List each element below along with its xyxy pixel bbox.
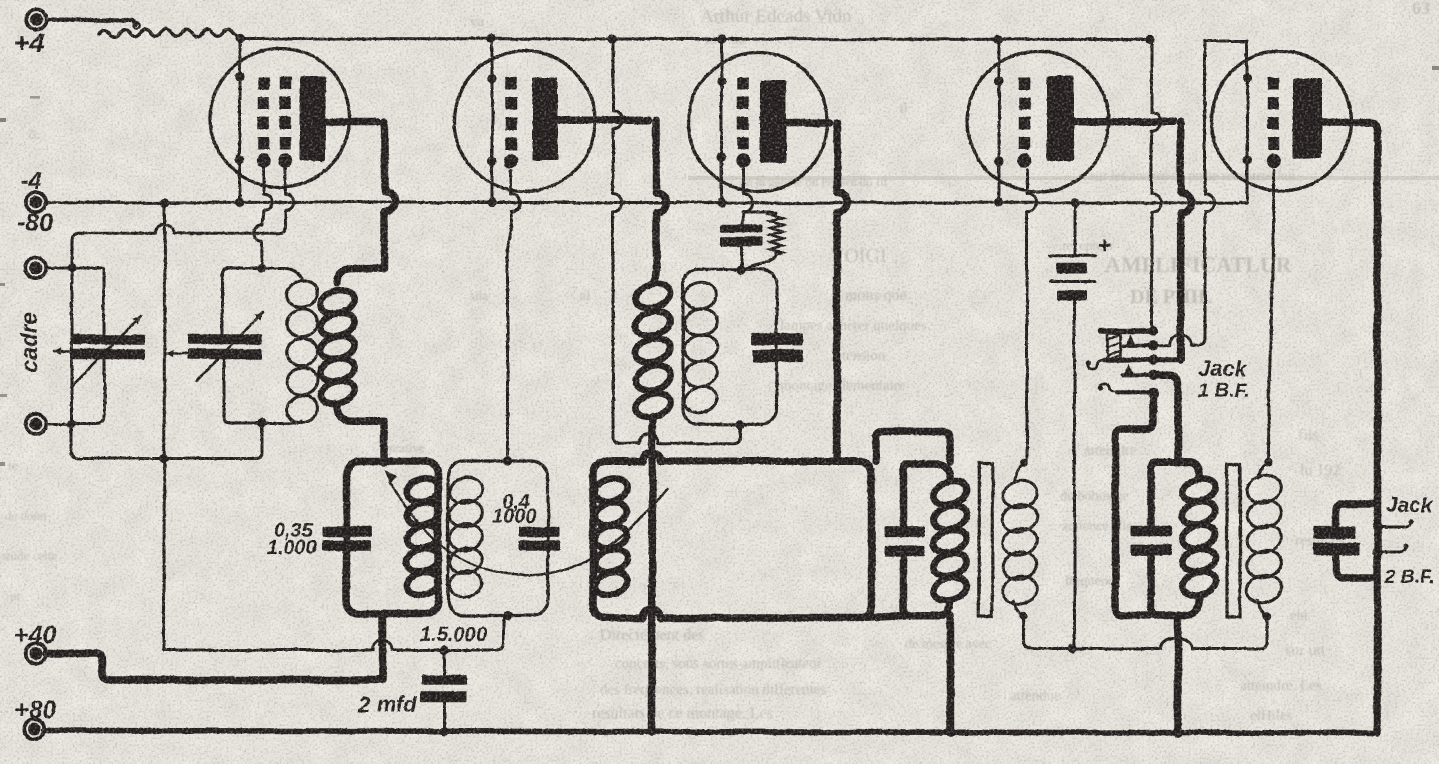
transformer TR1 core: [979, 464, 993, 616]
transformer TR2 primary frame: [1151, 462, 1199, 616]
wire cadre top link: [46, 267, 104, 270]
inductor L7 T4 coil: [681, 279, 719, 312]
junction -4 bus tube4 fil: [994, 198, 1003, 207]
terminal +4: [26, 9, 46, 29]
capacitor C5 lead bottom: [443, 702, 446, 732]
terminal cadre bottom: [26, 414, 46, 434]
transformer TR1 primary frame: [904, 464, 951, 615]
junction +80 tube2 plate feed: [647, 727, 656, 736]
inductor TR1 secondary coil: [1014, 463, 1024, 482]
wire -4 bus: [46, 201, 1247, 205]
junction -4 bus tube2 fil: [487, 198, 496, 207]
tube V3 filament bottom junction: [717, 152, 726, 161]
capacitor C5 top plate: [422, 675, 468, 685]
wire L2 to tank1: [381, 421, 389, 463]
jack J2 coupling capacitor: [1336, 504, 1378, 526]
variable capacitor C1 bottom lead: [72, 360, 105, 424]
junction top bus tube1: [235, 34, 244, 43]
wire L5 through tank3 to +80: [648, 428, 656, 732]
tube V2 filament top junction: [487, 74, 496, 83]
wire TR1 primary to +80: [947, 615, 955, 732]
variable capacitor C2 trimmer arrow: [166, 352, 190, 355]
jack J1 frame bar: [1101, 328, 1150, 334]
tube V5 filament top junction: [1242, 74, 1251, 83]
wire bias return: [1024, 616, 1161, 649]
grid capacitor C6 bottom plate: [721, 237, 763, 247]
tube V2 filament wire: [491, 39, 494, 203]
jack J1 contact 4 arm: [1122, 373, 1149, 377]
inductor L2 plate coil: [337, 269, 385, 283]
wire cadre to lower bus: [72, 423, 263, 459]
tube V2 grid wire: [511, 170, 520, 222]
tube V3 envelope and electrodes: [689, 53, 828, 192]
tuned circuit T3 frame: [593, 461, 872, 618]
junction TR2 secondary bottom: [1263, 612, 1271, 620]
junction cadre top: [67, 263, 76, 272]
junction -4 bus battery: [1070, 198, 1079, 207]
tube V4 filament bottom junction: [994, 156, 1003, 165]
tube V2 filament bottom junction: [487, 156, 496, 165]
capacitor C4 bottom plate: [519, 540, 560, 551]
tube V2 plate wire: [557, 117, 649, 125]
transformer TR2 core: [1227, 465, 1240, 617]
jack J2 contact ring: [1373, 547, 1383, 557]
junction T2 bottom: [503, 611, 512, 620]
junction top bus tube3: [717, 34, 726, 43]
capacitor C3 bottom plate: [322, 540, 371, 551]
junction TR2 secondary top: [1264, 458, 1272, 466]
tube V1 plate wire vertical: [385, 122, 395, 269]
tube V3 plate wire: [785, 119, 830, 127]
jack J1 contact 2 arrow: [1126, 334, 1136, 346]
wire top bus to jack frame: [1152, 40, 1161, 331]
wire tank1 to +40 riser: [379, 614, 387, 680]
junction top bus corner: [1145, 35, 1154, 44]
battery B1 lead bottom: [1073, 300, 1076, 649]
junction T2 top: [503, 456, 512, 465]
junction -4 bus tube3 fil: [717, 198, 726, 207]
wire T3 to TR1 bottom link: [866, 615, 906, 617]
capacitor C5 lead top: [443, 650, 446, 675]
terminal +40: [26, 643, 46, 663]
junction lower bus ground vertical: [159, 454, 168, 463]
capacitor C3 top plate: [322, 526, 372, 537]
margin marks: [0, 118, 6, 122]
terminal +80: [24, 719, 44, 739]
variable capacitor C2 top lead: [222, 268, 260, 334]
terminal cadre top: [26, 258, 46, 278]
wire T3 to transformer1 primary: [876, 431, 950, 462]
wire fil feed x613: [613, 39, 622, 436]
junction top bus tube4: [994, 35, 1003, 44]
wire lower return y650: [164, 649, 373, 652]
junction grid coil top node: [257, 263, 266, 272]
battery B1 lead top: [1073, 203, 1076, 256]
grid resistor R2: [770, 212, 782, 255]
junction T4 bottom: [736, 420, 745, 429]
jack J1 contact 5 spring: [1099, 384, 1115, 392]
jack J1 contact 2 arm: [1124, 343, 1150, 347]
tube V1 outer grid wire: [278, 167, 294, 233]
tuned circuit T4 frame: [683, 269, 777, 424]
scan band artifact: [688, 176, 1439, 180]
inductor TR1 primary coil: [931, 478, 970, 509]
capacitor C8 top plate: [884, 527, 925, 538]
wire TR2 primary to +80: [1174, 616, 1182, 733]
tube V1 filament wire: [238, 39, 241, 203]
battery B1 cell1 long plate: [1051, 255, 1096, 258]
variable capacitor C1 top plate: [72, 334, 146, 344]
capacitor C9 bottom plate: [1131, 545, 1173, 556]
wire +40 feed: [46, 653, 383, 680]
tube V5 grid wire: [1269, 170, 1274, 462]
variable capacitor C1 trimmer arrow: [54, 350, 88, 353]
capacitor C7 top plate: [752, 333, 804, 345]
tube V5 filament wire: [1246, 41, 1249, 203]
junction top bus tube2: [487, 34, 496, 43]
wire cadre vertical link: [70, 268, 73, 424]
variable capacitor C1 top lead: [103, 268, 106, 334]
inductor L6 T3 coil: [592, 475, 630, 505]
wire ground vertical: [163, 202, 167, 650]
inductor TR2 secondary coil: [1258, 462, 1269, 478]
junction +80 transformer1: [946, 728, 955, 737]
junction -4 bus ground vertical: [160, 198, 169, 207]
jack J1 contact 5 arm: [1116, 391, 1149, 395]
grid resistor R2 top lead: [742, 212, 777, 214]
tube V1 envelope and electrodes: [211, 49, 350, 188]
tube V4 filament wire: [998, 40, 1001, 203]
variable capacitor C1 bottom plate: [72, 349, 146, 360]
wire +4 top bus: [240, 39, 1150, 40]
tube V1 plate wire horizontal: [324, 118, 378, 126]
capacitor C5 bottom plate: [420, 691, 467, 702]
tube V5 filament bottom junction: [1242, 155, 1251, 164]
tube V4 grid wire: [1027, 170, 1036, 455]
grid capacitor C6 top plate: [721, 225, 763, 233]
tube V1 filament top junction: [235, 72, 244, 81]
jack J1 contact 3 spring: [1088, 360, 1104, 369]
junction +80 transformer2: [1173, 728, 1182, 737]
rheostat R1 wiper contact: [133, 22, 139, 28]
variable capacitor C1 arrow: [73, 316, 141, 384]
capacitor C8 bottom plate: [884, 545, 925, 556]
jack J1 contact 3 bar: [1104, 357, 1150, 362]
capacitor C4 top plate: [519, 526, 560, 537]
tube V3 filament wire: [720, 39, 723, 203]
terminal -4/-80: [26, 192, 46, 212]
wire node B to C2: [224, 360, 262, 424]
inductor L3 tank1 coil: [404, 475, 442, 505]
grid capacitor C6 bottom lead: [740, 247, 743, 270]
junction TR1 secondary top: [1019, 459, 1027, 467]
jack J1 bushing: [1108, 333, 1121, 359]
capacitor C9 top plate: [1131, 526, 1173, 537]
tube V3 grid wire: [743, 169, 752, 212]
junction top bus x613: [608, 34, 617, 43]
tuned circuit T1 frame: [346, 462, 438, 615]
tube V5 envelope and electrodes: [1212, 51, 1352, 191]
rheostat R1: [99, 29, 233, 37]
junction bias battery: [1068, 644, 1077, 653]
wire +4 terminal to rheostat tap: [47, 19, 136, 25]
variable capacitor C2 arrow: [196, 312, 263, 382]
battery B1 cell2 long plate: [1051, 280, 1096, 283]
inductor L4 T2 coil: [447, 474, 485, 507]
wire rheostat to +4 bus: [233, 33, 240, 38]
grid resistor R2 bottom lead: [747, 254, 777, 269]
wire tube5 fil feed: [1205, 41, 1214, 338]
inductor L1 grid coil: [260, 268, 304, 280]
tube V5 plate wire: [1320, 123, 1378, 734]
tube V2 envelope and electrodes: [454, 51, 595, 192]
junction TR1 secondary bottom: [1019, 612, 1027, 620]
capacitor C7 bottom plate: [753, 350, 804, 363]
tube V4 filament top junction: [994, 76, 1003, 85]
junction T4 top: [736, 265, 745, 274]
jack J2 contact tip: [1373, 522, 1383, 532]
tube V1 inner grid wire: [254, 167, 272, 268]
wire cadre bottom link: [46, 423, 72, 426]
battery B1 cell2 short plate: [1057, 290, 1088, 300]
tuned circuit T2 frame: [448, 461, 548, 616]
inductor TR2 primary coil: [1180, 475, 1219, 506]
variable capacitor C2 top plate: [188, 334, 263, 344]
wire +80 bus: [44, 731, 1374, 734]
battery B1 cell1 short plate: [1057, 263, 1088, 273]
wire grid return bus y233: [79, 224, 278, 233]
variometer arrow: [390, 483, 667, 575]
variable capacitor C2 bottom plate: [188, 349, 263, 360]
tube V5 filament top link: [1205, 40, 1247, 43]
junction -4 bus tube1 fil: [235, 198, 244, 207]
tube V1 filament bottom junction: [235, 155, 244, 164]
inductor L5 series plate coil: [653, 263, 656, 284]
junction cadre bottom: [67, 419, 76, 428]
jack J1 contact 4 arrow: [1124, 364, 1134, 376]
junction return to C5: [440, 645, 449, 654]
tube V3 filament top junction: [717, 76, 726, 85]
tube V4 plate wire: [1073, 118, 1174, 126]
junction +80 C5: [440, 727, 449, 736]
junction grid coil bottom node: [257, 418, 266, 427]
tube V4 envelope and electrodes: [968, 51, 1109, 192]
jack J1 contact 5 wire to TR2: [1116, 393, 1154, 615]
